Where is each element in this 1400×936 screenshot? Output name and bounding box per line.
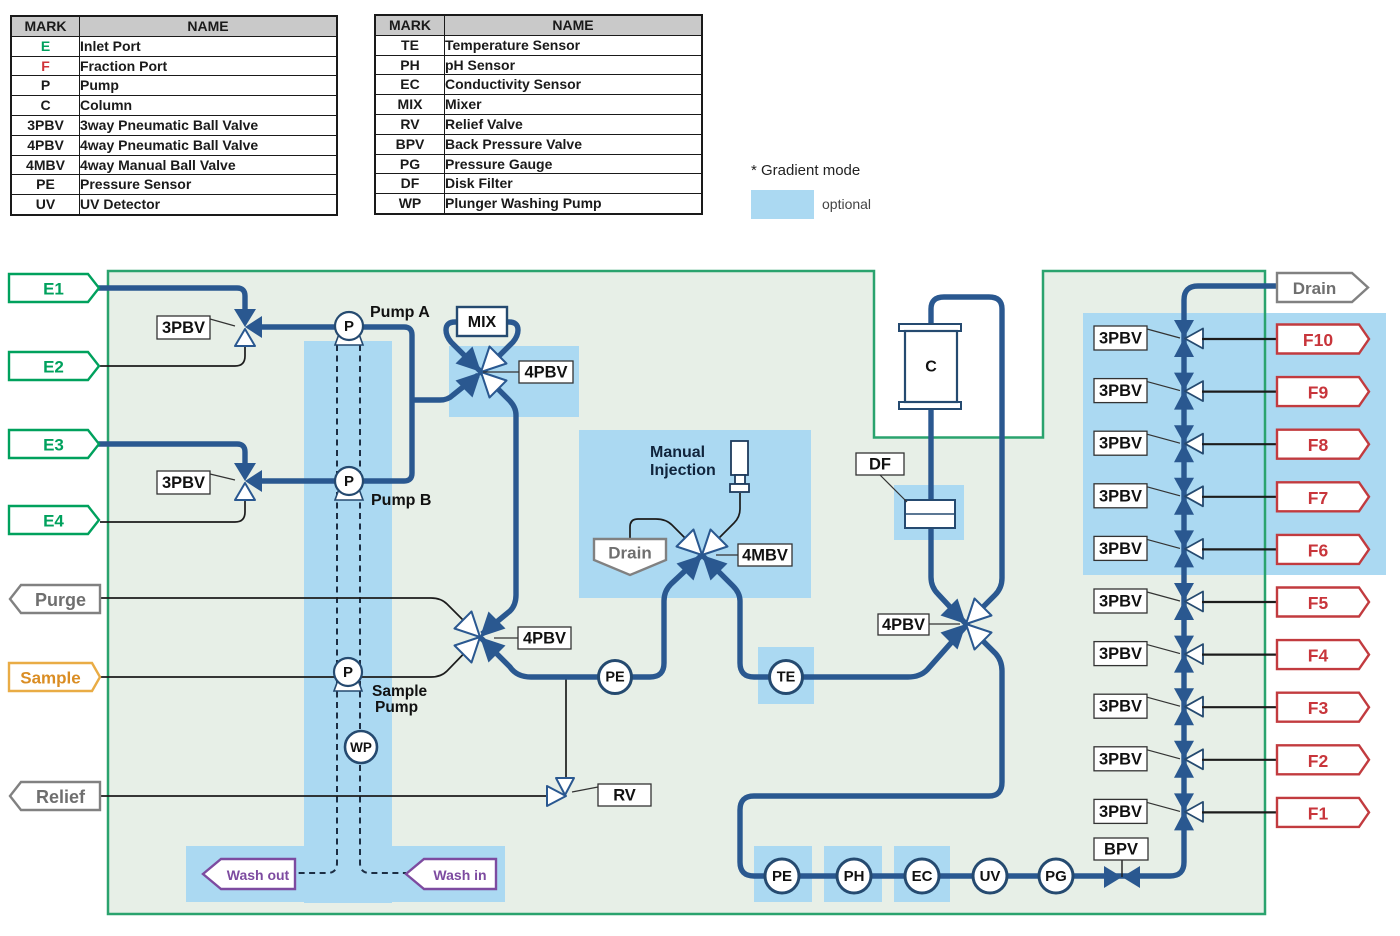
svg-text:3PBV: 3PBV — [1099, 435, 1142, 453]
svg-text:Sample: Sample — [372, 683, 428, 700]
svg-text:DF: DF — [869, 456, 891, 474]
svg-text:3PBV: 3PBV — [1099, 645, 1142, 663]
svg-text:3PBV: 3PBV — [1099, 540, 1142, 558]
svg-text:3PBV: 3PBV — [1099, 330, 1142, 348]
svg-text:UV: UV — [980, 868, 1001, 885]
svg-text:F3: F3 — [1308, 698, 1329, 718]
svg-text:F10: F10 — [1303, 330, 1333, 350]
svg-text:F9: F9 — [1308, 383, 1329, 403]
svg-text:3PBV: 3PBV — [162, 474, 205, 492]
svg-text:3PBV: 3PBV — [1099, 487, 1142, 505]
svg-text:3PBV: 3PBV — [1099, 593, 1142, 611]
svg-text:Manual: Manual — [650, 444, 705, 461]
svg-text:P: P — [343, 664, 353, 681]
svg-text:C: C — [925, 359, 937, 376]
svg-text:EC: EC — [912, 868, 933, 885]
svg-text:PH: PH — [844, 868, 865, 885]
svg-text:Pump A: Pump A — [370, 304, 430, 321]
svg-text:WP: WP — [350, 740, 372, 755]
svg-text:BPV: BPV — [1104, 841, 1138, 859]
svg-text:E2: E2 — [43, 358, 64, 377]
svg-text:Wash out: Wash out — [227, 867, 290, 883]
svg-text:4MBV: 4MBV — [742, 547, 788, 565]
svg-text:3PBV: 3PBV — [1099, 803, 1142, 821]
svg-text:4PBV: 4PBV — [882, 616, 925, 634]
svg-text:4PBV: 4PBV — [523, 630, 566, 648]
svg-text:PE: PE — [772, 868, 792, 885]
svg-text:3PBV: 3PBV — [1099, 750, 1142, 768]
svg-text:Injection: Injection — [650, 462, 716, 479]
svg-text:Purge: Purge — [35, 590, 86, 610]
svg-text:Wash in: Wash in — [433, 867, 486, 883]
svg-text:F5: F5 — [1308, 593, 1329, 613]
svg-text:Drain: Drain — [1293, 279, 1336, 298]
svg-text:RV: RV — [613, 787, 636, 805]
svg-text:Pump B: Pump B — [371, 492, 431, 509]
svg-text:Pump: Pump — [375, 699, 418, 716]
svg-text:F6: F6 — [1308, 540, 1329, 560]
svg-text:F4: F4 — [1308, 646, 1329, 666]
svg-text:P: P — [344, 473, 354, 490]
svg-text:E4: E4 — [43, 512, 64, 531]
svg-text:P: P — [344, 318, 354, 335]
svg-text:PE: PE — [605, 670, 625, 686]
svg-text:F7: F7 — [1308, 488, 1328, 508]
svg-text:F2: F2 — [1308, 751, 1329, 771]
svg-text:PG: PG — [1045, 868, 1067, 885]
svg-text:Sample: Sample — [20, 669, 80, 688]
svg-text:3PBV: 3PBV — [1099, 382, 1142, 400]
svg-text:Relief: Relief — [36, 787, 86, 807]
svg-text:3PBV: 3PBV — [162, 319, 205, 337]
svg-text:Drain: Drain — [608, 544, 651, 563]
svg-text:F1: F1 — [1308, 803, 1329, 823]
svg-text:E3: E3 — [43, 436, 64, 455]
svg-text:4PBV: 4PBV — [524, 364, 567, 382]
svg-text:TE: TE — [777, 670, 796, 686]
svg-text:MIX: MIX — [468, 314, 497, 331]
svg-text:3PBV: 3PBV — [1099, 698, 1142, 716]
svg-text:E1: E1 — [43, 280, 64, 299]
svg-text:F8: F8 — [1308, 435, 1329, 455]
